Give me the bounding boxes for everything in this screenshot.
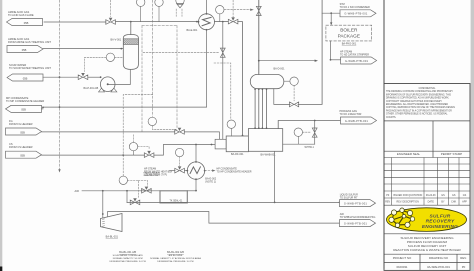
- instrument FV1 controller circle: [148, 117, 156, 125]
- wire V3 to pump P-001: [88, 76, 100, 78]
- svg-text:BA-BL-001 A/B: BA-BL-001 A/B: [119, 251, 136, 254]
- wire FV2 to valve V5: [138, 147, 149, 150]
- wire process gas from WHB: [278, 121, 340, 129]
- molecule graphic: [392, 211, 412, 226]
- svg-text:REV.: REV.: [460, 256, 467, 260]
- svg-text:BA-V-001: BA-V-001: [111, 39, 122, 42]
- project row: [384, 253, 470, 255]
- wire steam riser E-002 top to y144.5 line: [195, 145, 197, 162]
- wire L1 to valve V1: [44, 21, 106, 23]
- svg-text:G-WHB-PTB-001: G-WHB-PTB-001: [345, 59, 369, 63]
- svg-text:09-24-03: 09-24-03: [426, 194, 436, 197]
- instrument PI above furnace: [227, 120, 235, 128]
- wire condensate riser up to E-001: [206, 30, 208, 107]
- svg-text:G-WHB-PTB-001: G-WHB-PTB-001: [344, 12, 368, 16]
- waste heat boiler WHB: [248, 129, 282, 152]
- svg-text:DIFFERENTIAL PRESSURE: 3.0 PSI: DIFFERENTIAL PRESSURE: 3.0 PSI: [109, 260, 146, 263]
- valve V8 vertical on bypass: [220, 48, 225, 57]
- wire dashed vertical x177: [176, 26, 178, 128]
- node R5 (air): [340, 220, 376, 227]
- svg-text:(NOTE 1): (NOTE 1): [205, 181, 216, 184]
- svg-text:GS: GS: [452, 194, 456, 197]
- wire fuel gas to burner: [185, 132, 220, 139]
- wire hot bypass branch: [314, 121, 316, 145]
- reaction furnace RF-001: [226, 136, 248, 152]
- svg-text:DIFFERENTIAL PRESSURE: 3.0 PSI: DIFFERENTIAL PRESSURE: 3.0 PSI: [157, 260, 194, 263]
- wire dashed top branch y25.6: [142, 25, 177, 27]
- svg-text:BA-WHB-001: BA-WHB-001: [261, 153, 277, 156]
- valve V6a on seal air upper: [142, 187, 152, 194]
- svg-text:FROM AMINE GAS TREATING UNIT: FROM AMINE GAS TREATING UNIT: [8, 40, 51, 44]
- valve LV on blowdown: [290, 102, 299, 107]
- svg-text:TO HZ CAT/RX STRIPPER: TO HZ CAT/RX STRIPPER: [340, 53, 369, 56]
- heat exchanger E-002: [186, 161, 205, 180]
- vessel V-001 KO drum: [123, 34, 138, 69]
- steam drum D-001: [250, 74, 283, 88]
- node R2 (HP steam): [341, 57, 377, 64]
- svg-text:BA-E-001: BA-E-001: [187, 29, 198, 32]
- valve V6b on seal line: [130, 198, 140, 205]
- title block frame: [384, 84, 470, 271]
- instrument PC air: [119, 176, 127, 184]
- svg-text:TO WHB/LP ECONOMIZER PKG: TO WHB/LP ECONOMIZER PKG: [340, 216, 376, 219]
- svg-text:05B: 05B: [24, 21, 29, 25]
- svg-text:NORMAL CAPACITY: 57 ACFM EA. N: NORMAL CAPACITY: 57 ACFM EA. NOZZLE AREA: [150, 257, 201, 260]
- pump P-001: [99, 77, 117, 92]
- svg-text:ENGINEER SEAL: ENGINEER SEAL: [397, 152, 421, 156]
- blower BL-001: [101, 214, 123, 232]
- svg-text:TO MP CONDENSATE HEADER: TO MP CONDENSATE HEADER: [6, 99, 44, 103]
- instrument TI on bypass: [294, 128, 302, 136]
- wire TI dashed signal to valve at x258.8: [224, 9, 250, 11]
- svg-text:BY: BY: [441, 201, 445, 204]
- wire V5 east then jog up to y144.5: [154, 145, 215, 156]
- svg-text:FROM FG HEADER: FROM FG HEADER: [9, 122, 33, 126]
- node L2 (from amine unit): [7, 46, 43, 53]
- svg-text:COPYRIGHT CREATED ACTIVITIES F: COPYRIGHT CREATED ACTIVITIES FOR RECOVER…: [386, 100, 442, 103]
- instrument AI-2 (top, clipped): [155, 0, 163, 6]
- wire LG dashed to LV: [293, 86, 295, 101]
- valve V1 (acid gas to flare PV): [106, 18, 116, 25]
- valve V9 vertical on BFW feed: [256, 6, 261, 15]
- wire steam line to connector R1: [322, 12, 340, 14]
- svg-text:ISSUED FOR QUOTATION: ISSUED FOR QUOTATION: [393, 194, 422, 197]
- svg-text:APP: APP: [462, 201, 467, 204]
- wire WHB sulfur drain: [274, 151, 276, 202]
- wire L3 to valve V3: [43, 76, 78, 78]
- wire L6 steam line: [42, 154, 145, 156]
- wire pump suction from vessel bottom: [109, 69, 131, 84]
- valve V2 (main line TV): [228, 17, 238, 24]
- wire dashed trunk at x142: [141, 26, 143, 132]
- svg-text:BA-BL-001: BA-BL-001: [106, 235, 119, 238]
- svg-text:CHK: CHK: [451, 201, 456, 204]
- svg-text:PACKAGE MAY RESULT IN A COPYRI: PACKAGE MAY RESULT IN A COPYRIGHT INFRIN…: [386, 109, 452, 112]
- svg-text:TO NO.1 REACTOR: TO NO.1 REACTOR: [340, 113, 362, 116]
- svg-text:BA-D-001: BA-D-001: [274, 67, 286, 70]
- wire box to E-002 drain stub: [187, 190, 196, 192]
- svg-text:G-WHB-PTB-001: G-WHB-PTB-001: [345, 119, 369, 123]
- svg-text:05B: 05B: [20, 154, 25, 158]
- valve PV (top, clipped actuator): [176, 0, 184, 5]
- wire drum blowdown line: [274, 89, 290, 105]
- company logo: [387, 208, 467, 232]
- svg-text:BA-RF-001: BA-RF-001: [231, 153, 244, 156]
- wire L2 to vessel V-001: [43, 48, 123, 50]
- riser tube 3: [261, 89, 263, 129]
- svg-text:05B: 05B: [23, 76, 28, 80]
- revision header row: [385, 201, 467, 204]
- svg-text:AIR: AIR: [75, 189, 79, 193]
- border vertical line: [383, 0, 385, 269]
- confidential note: [386, 87, 455, 119]
- svg-text:3A-SRE-PFD-001: 3A-SRE-PFD-001: [427, 265, 450, 269]
- svg-text:PROJECT NO: PROJECT NO: [393, 256, 412, 260]
- wire E-002 drain to seal line: [195, 180, 197, 191]
- node L5 (fuel gas): [6, 128, 42, 135]
- wire BFW feed down into drum: [258, 0, 260, 74]
- wire V1 dashed stem up: [110, 0, 112, 17]
- svg-text:GS: GS: [441, 194, 445, 197]
- valve V3 (sour water LV): [78, 73, 88, 80]
- wire blower discharge to connector R5: [108, 212, 340, 224]
- wire HP steam into E-002: [170, 170, 176, 172]
- node R3 (process gas): [341, 117, 377, 124]
- svg-text:DATE: DATE: [428, 201, 435, 204]
- node L6 (stripping steam): [6, 151, 42, 158]
- wire dashed trunk at x59.5: [59, 0, 61, 170]
- svg-text:BA-BL-002 A/B: BA-BL-002 A/B: [167, 251, 184, 254]
- svg-text:PACKAGE: PACKAGE: [338, 34, 360, 39]
- revision table rows: [384, 158, 470, 206]
- svg-text:COURTS.: COURTS.: [386, 117, 396, 119]
- svg-text:DRAWING IS COPYRIGHTED, AS AN: DRAWING IS COPYRIGHTED, AS AN UNPUBLISHE…: [386, 97, 450, 100]
- svg-text:G-WHB-PTB-001: G-WHB-PTB-001: [344, 201, 368, 205]
- node L4 (MP condensate): [6, 105, 42, 112]
- wire bypass branch down with vertical valve: [222, 22, 224, 140]
- wire liquid sulfur line to connector R4: [127, 201, 340, 203]
- seal cells: [384, 120, 470, 122]
- riser tube 4: [266, 89, 268, 129]
- heat exchanger E-001: [198, 13, 215, 31]
- wire dashed branch to PI above furnace: [214, 63, 231, 120]
- wire blowdown east and up: [298, 0, 322, 104]
- svg-text:DRAWING NO: DRAWING NO: [429, 256, 449, 260]
- wire main line V1 to exchanger E-001: [116, 21, 199, 23]
- wire dashed PC to valves: [128, 180, 139, 197]
- wire FV1 to valve V4: [152, 126, 177, 130]
- scan edge artifacts: [0, 0, 2, 271]
- wire branch down to seal line: [126, 191, 128, 203]
- svg-text:COPYING, REPRODUCTION OR USE O: COPYING, REPRODUCTION OR USE OF THE PROC…: [386, 107, 455, 109]
- wire branch into boiler package: [330, 13, 332, 23]
- equipment note text block 2: [150, 251, 201, 263]
- wire LC signal to valve V3: [85, 57, 107, 71]
- wire V2 east then down to furnace: [238, 22, 243, 136]
- svg-text:FROM CS HEADER: FROM CS HEADER: [9, 145, 33, 149]
- revision row P0: [386, 194, 466, 197]
- valve V7 on HP steam: [175, 166, 185, 173]
- wire E-002 condensate outlet dashed: [205, 170, 213, 172]
- wire E-001 vent up off page: [206, 0, 208, 14]
- instrument LG on drum: [284, 80, 290, 82]
- svg-text:SEAL AIR LINE: SEAL AIR LINE: [143, 174, 159, 177]
- svg-text:SULFUR: SULFUR: [430, 213, 451, 219]
- equipment note text block 1: [109, 251, 146, 263]
- svg-text:TO HP CONDENSATE HEADER: TO HP CONDENSATE HEADER: [217, 170, 252, 173]
- boiler package dashed box: [326, 25, 372, 41]
- svg-text:BOILER: BOILER: [340, 28, 358, 33]
- logo box bottom line: [384, 233, 470, 235]
- wire air line upper: [82, 190, 160, 192]
- node R4 (liquid sulfur): [340, 200, 376, 207]
- dashed signal to air valve: [122, 95, 124, 108]
- wire branch to steam arrow: [259, 60, 316, 62]
- svg-text:INFORMATION OF SULFUR RECOVERY: INFORMATION OF SULFUR RECOVERY ENGINEERI…: [386, 93, 451, 96]
- riser tube 1: [254, 89, 256, 129]
- svg-text:09J0031: 09J0031: [396, 265, 407, 269]
- svg-text:OTHER. OTHER PERMISSIBLE IS NO: OTHER. OTHER PERMISSIBLE IS NOTICED. US …: [386, 113, 448, 116]
- svg-text:05B: 05B: [21, 108, 26, 112]
- svg-text:RECOVERY: RECOVERY: [426, 219, 455, 225]
- valve V4 on fuel gas line: [175, 128, 185, 135]
- valve TV vertical on bypass: [312, 128, 317, 137]
- wire bypass back to WHB: [283, 143, 315, 145]
- node L3 (sour water): [7, 74, 43, 81]
- svg-text:TO ACID GAS FLARE: TO ACID GAS FLARE: [8, 13, 34, 17]
- instrument AI-1 (top, clipped): [137, 0, 145, 6]
- wire L5 fuel gas line: [42, 131, 175, 133]
- riser tube 2: [258, 89, 260, 129]
- drawing title: [393, 236, 461, 252]
- wire boiler to HP steam connector R2: [330, 41, 332, 60]
- svg-text:REV. DESCRIPTION: REV. DESCRIPTION: [397, 201, 420, 204]
- svg-text:REV: REV: [385, 201, 390, 204]
- instrument TI at E-001 outlet: [216, 6, 224, 14]
- instrument LC on vessel: [106, 53, 114, 61]
- svg-text:REACTION FURNACE & WASTE HEAT: REACTION FURNACE & WASTE HEAT BOILER: [393, 248, 461, 252]
- sulfur seal box: [160, 191, 187, 203]
- node R1 (steam): [340, 10, 376, 17]
- svg-text:05B: 05B: [22, 48, 27, 52]
- svg-text:PRESSURE AIR: PRESSURE AIR: [143, 171, 160, 174]
- svg-text:NORMAL CAPACITY: 50 GPM: NORMAL CAPACITY: 50 GPM: [113, 257, 143, 260]
- node L1 (to acid gas flare): [7, 19, 43, 26]
- svg-text:THE DRAWING CONTAINS CONFIDENT: THE DRAWING CONTAINS CONFIDENTIAL AND PR…: [386, 90, 453, 93]
- burner block: [215, 139, 226, 149]
- wire air to blower suction: [102, 191, 104, 218]
- svg-text:ENGINEERING. ALL RIGHTS RESERV: ENGINEERING. ALL RIGHTS RESERVED. UNAUTH…: [386, 103, 448, 106]
- svg-text:WHTR-1: WHTR-1: [305, 146, 315, 149]
- valve V5 on L6 line: [144, 151, 154, 158]
- svg-text:P0: P0: [462, 265, 466, 269]
- svg-text:BA-P-001 A/B: BA-P-001 A/B: [84, 87, 99, 90]
- wire dashed branch y94.7 down to PC: [123, 95, 152, 176]
- svg-text:CONFIDENTIAL: CONFIDENTIAL: [419, 87, 437, 90]
- instrument FV2 controller circle: [129, 142, 137, 150]
- svg-text:05B: 05B: [20, 130, 25, 134]
- svg-text:TO SOUR WATER TREATING UNIT: TO SOUR WATER TREATING UNIT: [9, 66, 51, 70]
- svg-text:SOUR WATER CONDENSATE: SOUR WATER CONDENSATE: [113, 254, 144, 257]
- svg-text:GS: GS: [463, 194, 467, 197]
- svg-text:G-WHB-PTB-001: G-WHB-PTB-001: [344, 221, 368, 225]
- svg-text:BA-PKG-001: BA-PKG-001: [342, 43, 357, 46]
- wire dashed branch y52.7 to vertical valve: [143, 52, 220, 54]
- svg-text:ENGINEERING: ENGINEERING: [422, 224, 458, 230]
- svg-text:TO SULFUR PIT: TO SULFUR PIT: [340, 196, 358, 199]
- instrument FV3: [175, 148, 183, 156]
- svg-text:PERMIT STAMP: PERMIT STAMP: [441, 152, 462, 156]
- wire main line E-001 to valve V2: [215, 21, 229, 23]
- svg-text:AIR BLOWER: AIR BLOWER: [169, 254, 183, 257]
- wire L4 condensate line to riser: [42, 108, 44, 110]
- wire dashed trunk at x152.6: [152, 0, 154, 116]
- svg-text:TO NO.1 S/D CONDENSER: TO NO.1 S/D CONDENSER: [340, 6, 370, 9]
- wire vessel riser to main line: [130, 22, 132, 35]
